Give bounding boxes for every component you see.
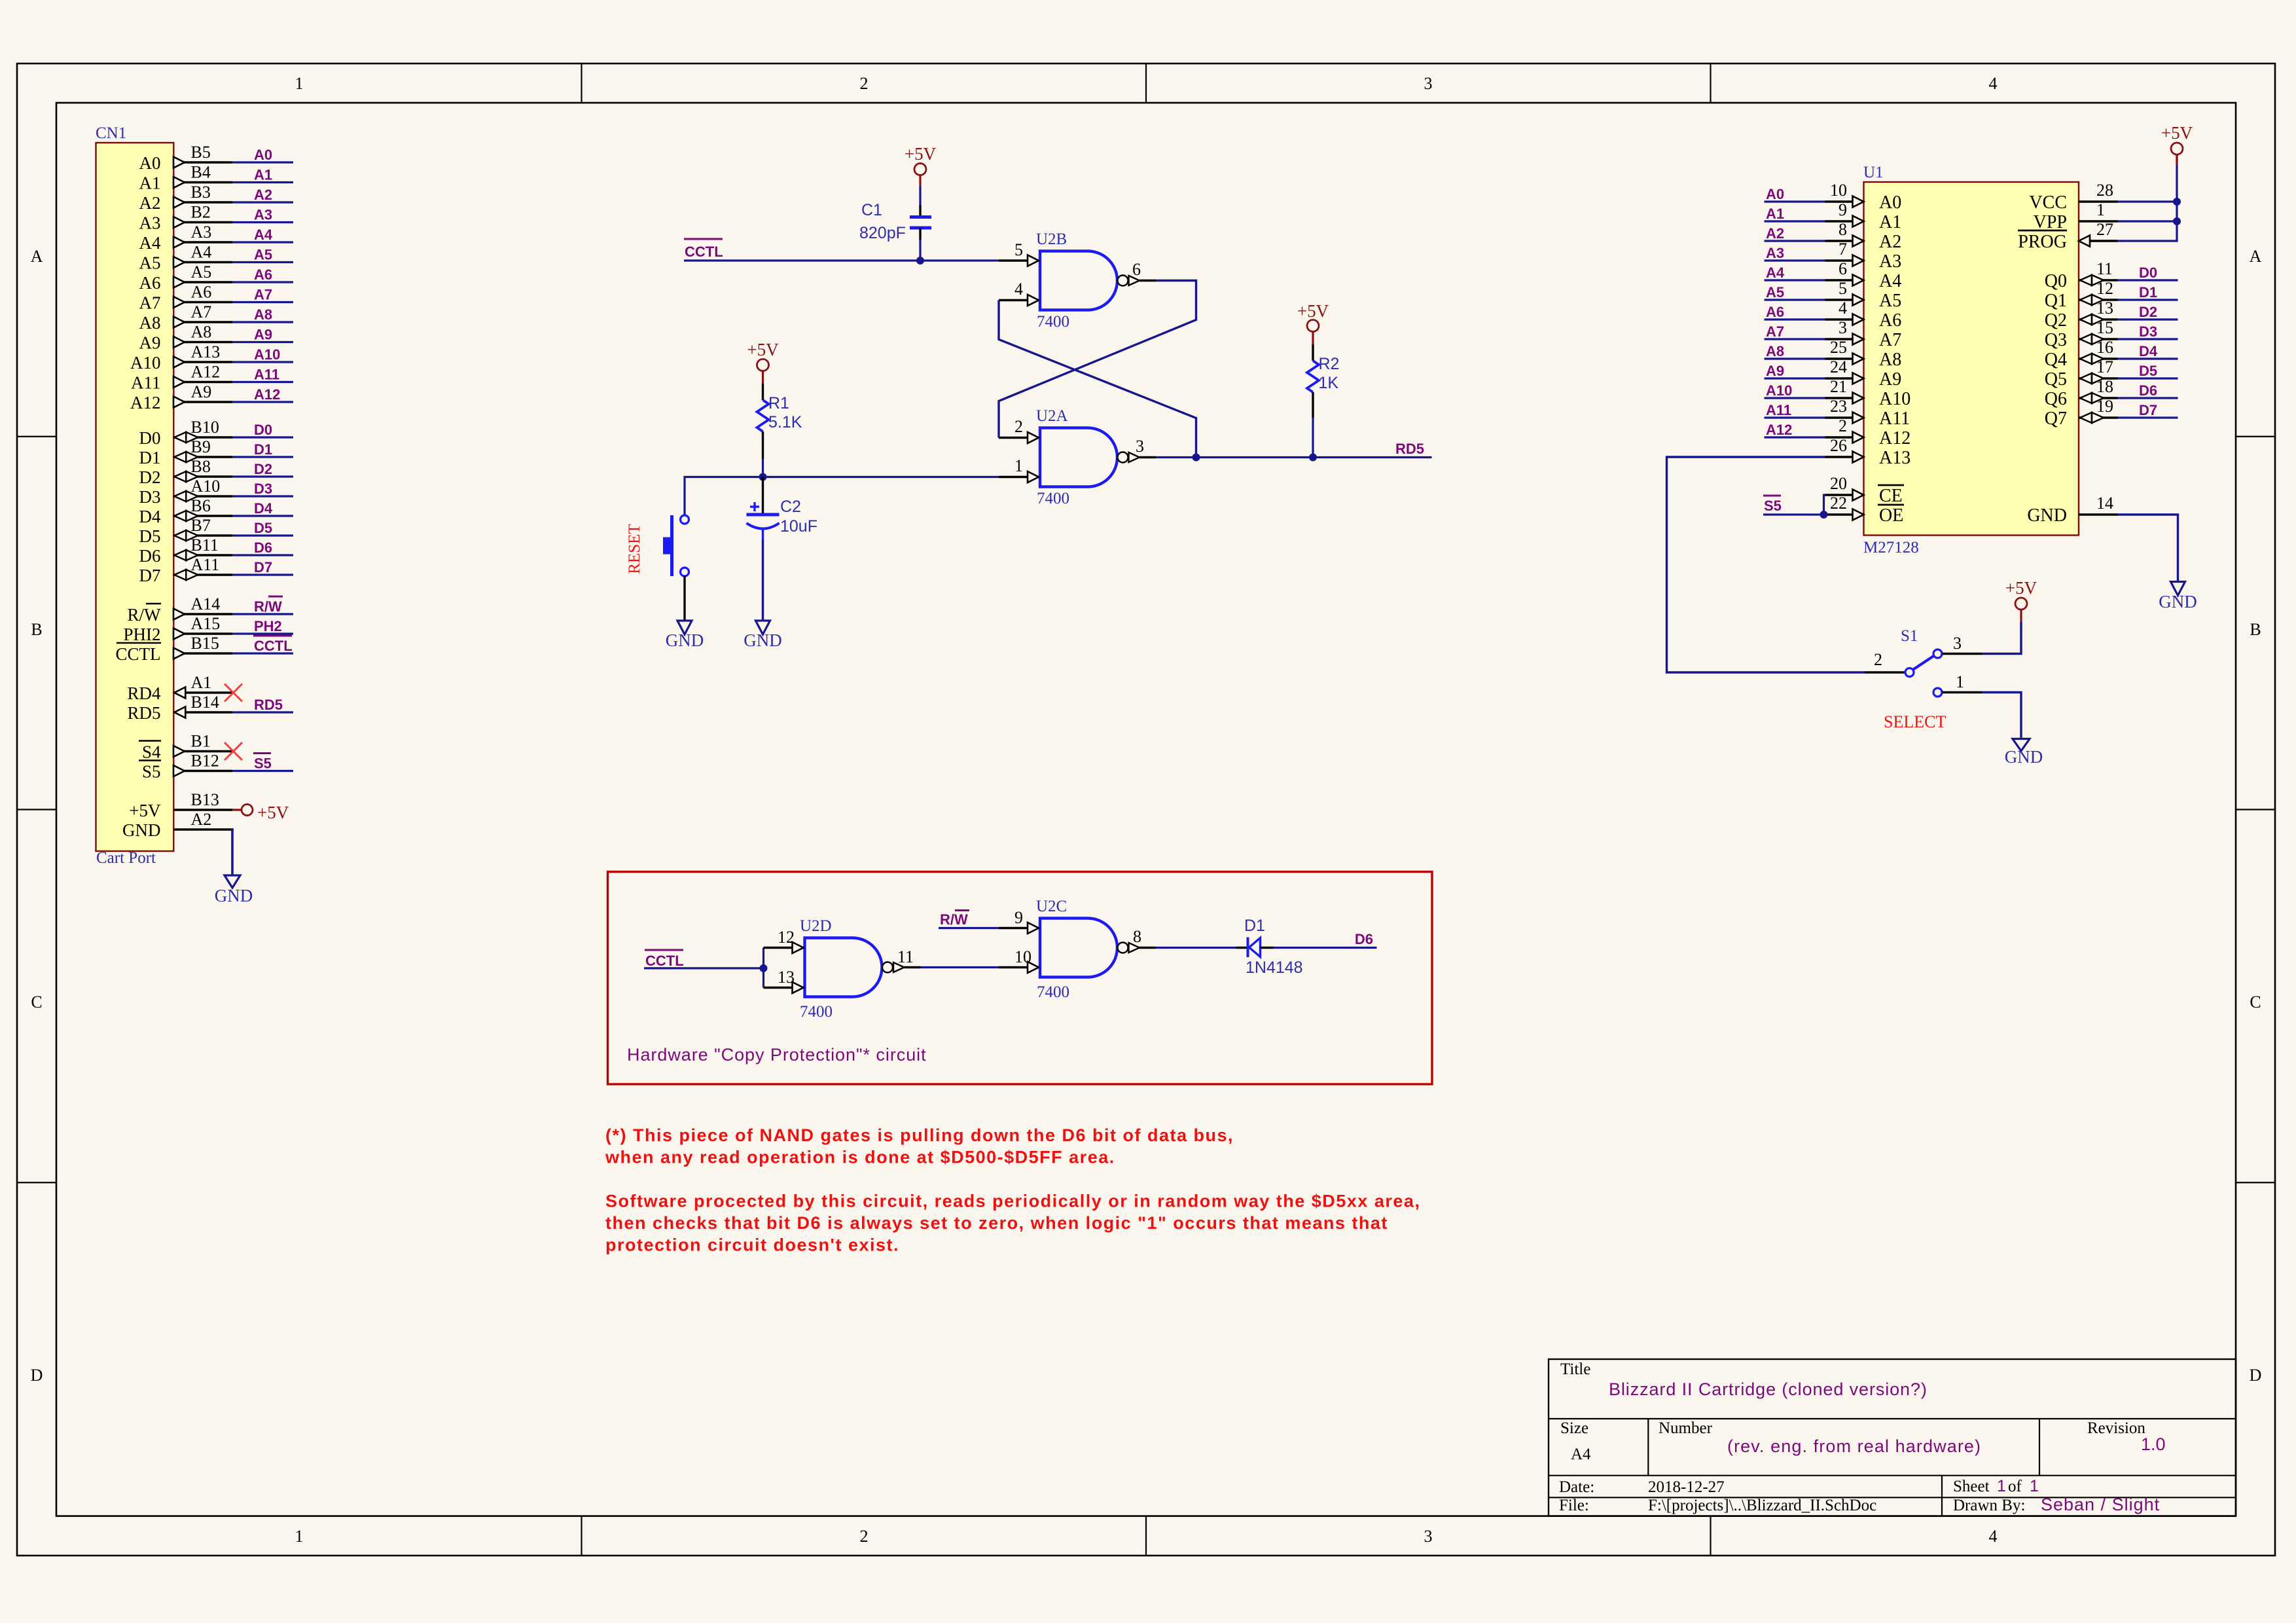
U2C pin 9 (999, 908, 1039, 934)
wire RESET switch to ground (683, 576, 685, 621)
net label D6 (1355, 931, 1373, 947)
svg-text:Size: Size (1560, 1419, 1588, 1437)
svg-text:RD4: RD4 (127, 684, 161, 703)
wire + net label A11 (to U1) (1765, 402, 1825, 418)
svg-text:B9: B9 (191, 437, 211, 456)
svg-text:27: 27 (2096, 220, 2113, 239)
svg-text:A14: A14 (191, 594, 221, 613)
svg-text:9: 9 (1014, 908, 1023, 927)
net label CCTL (latch input) (684, 239, 723, 260)
U2D pin 11 label (897, 947, 914, 966)
CN1 pin D1 (pad B9) (139, 437, 233, 467)
svg-text:13: 13 (2096, 299, 2113, 318)
svg-text:VPP: VPP (2034, 212, 2067, 232)
CN1 pin D7 (pad A11) (139, 555, 233, 585)
wire RC node row to U2A pin 1 (685, 477, 999, 516)
wire S1 pin1 to ground (1982, 693, 2022, 740)
wire RD5 output (1156, 456, 1432, 458)
svg-text:CCTL: CCTL (115, 644, 160, 664)
svg-text:7400: 7400 (1037, 983, 1069, 1001)
svg-text:D: D (31, 1366, 43, 1385)
wire + net label A4 (to U1) (1765, 264, 1825, 281)
svg-text:D5: D5 (254, 520, 272, 536)
svg-text:R/W: R/W (940, 911, 968, 928)
svg-text:A9: A9 (1879, 369, 1901, 390)
net label RD5 (1395, 441, 1424, 457)
svg-text:CCTL: CCTL (685, 244, 723, 260)
wire + net label D0 (from U1) (2118, 264, 2178, 281)
U1 pin Q6 (18) (2045, 377, 2118, 409)
svg-text:+5V: +5V (905, 144, 937, 164)
S1 pin number 2 (1874, 650, 1882, 669)
U2B pin 6 label (1132, 260, 1141, 279)
svg-text:U1: U1 (1863, 164, 1884, 181)
CN1 pin D6 (pad B11) (139, 536, 233, 566)
svg-text:D7: D7 (139, 566, 161, 585)
wire + net label A2 (232, 187, 293, 203)
svg-text:C: C (31, 993, 42, 1012)
U1 pin Q2 (13) (2045, 299, 2118, 331)
svg-text:U2A: U2A (1036, 407, 1068, 425)
svg-text:A0: A0 (254, 147, 272, 163)
svg-text:12: 12 (2096, 279, 2113, 298)
wire to ground (CN1) (231, 828, 234, 875)
NAND gate U2B (7400) (1036, 230, 1156, 331)
resistor R1 5.1K (757, 384, 802, 459)
no-ERC cross S4 (224, 742, 242, 760)
svg-text:of: of (2008, 1478, 2022, 1495)
junction VCC node (2173, 198, 2181, 206)
wire D1 to D6 (1261, 947, 1377, 949)
CN1 pin A8 (pad A7) (139, 302, 233, 333)
U1 pin Q4 (16) (2045, 338, 2118, 370)
U1 pin A1 (9) (1825, 200, 1902, 232)
svg-text:Drawn By:: Drawn By: (1953, 1497, 2025, 1514)
wire + net label D0 (232, 422, 293, 438)
U1 pin Q7 (19) (2045, 397, 2118, 429)
svg-text:23: 23 (1830, 397, 1847, 416)
svg-text:GND: GND (744, 630, 782, 650)
U1 pin Q1 (12) (2045, 279, 2118, 311)
svg-text:Sheet: Sheet (1953, 1478, 1990, 1495)
svg-text:7: 7 (1839, 240, 1847, 259)
wire + net label A0 (232, 147, 293, 163)
wire + net label A0 (to U1) (1765, 186, 1825, 202)
svg-text:then checks that bit D6 is alw: then checks that bit D6 is always set to… (605, 1213, 1388, 1233)
CN1 pin RD4 (pad A1, not connected) (127, 673, 232, 703)
svg-text:A12: A12 (1766, 422, 1792, 438)
svg-text:PH2: PH2 (254, 618, 282, 634)
CN1 pin A6 (pad A5) (139, 263, 233, 293)
svg-text:17: 17 (2096, 357, 2113, 376)
svg-text:A12: A12 (130, 393, 161, 412)
svg-text:CE: CE (1879, 486, 1903, 506)
CN1 pin RD5 (pad B14) (127, 693, 232, 723)
svg-text:A7: A7 (1879, 330, 1901, 350)
svg-text:GND: GND (2005, 747, 2043, 767)
svg-text:1: 1 (295, 1527, 304, 1546)
svg-text:1K: 1K (1319, 374, 1339, 392)
svg-text:Revision: Revision (2087, 1419, 2145, 1437)
svg-text:5.1K: 5.1K (768, 413, 802, 431)
svg-text:R2: R2 (1319, 355, 1340, 373)
svg-text:A9: A9 (254, 327, 272, 343)
svg-text:A1: A1 (1766, 206, 1784, 222)
svg-text:B7: B7 (191, 516, 211, 535)
svg-text:S5: S5 (1764, 498, 1782, 514)
svg-text:A7: A7 (254, 287, 272, 303)
U2A pin 2 (999, 417, 1039, 443)
svg-text:A5: A5 (1879, 291, 1901, 311)
svg-text:D3: D3 (139, 487, 161, 507)
svg-text:A3: A3 (254, 207, 272, 223)
svg-text:10: 10 (1830, 181, 1847, 200)
svg-text:9: 9 (1839, 200, 1847, 219)
svg-text:A11: A11 (1879, 409, 1910, 429)
wire + net label D4 (from U1) (2118, 343, 2178, 359)
svg-text:A15: A15 (191, 614, 221, 633)
wire + net label S5 (232, 754, 293, 772)
CN1 pin A7 (pad A6) (139, 283, 233, 313)
svg-text:18: 18 (2096, 377, 2113, 396)
S1 pin number 1 (1956, 672, 1964, 691)
junction VPP node (2173, 217, 2181, 225)
svg-text:CCTL: CCTL (645, 953, 684, 969)
svg-text:(*) This piece of NAND gates i: (*) This piece of NAND gates is pulling … (605, 1125, 1234, 1145)
diode D1 1N4148 (1244, 917, 1303, 977)
CN1 pin A5 (pad A4) (139, 243, 233, 273)
svg-text:Title: Title (1560, 1360, 1590, 1378)
svg-text:A3: A3 (191, 223, 212, 242)
svg-text:Date:: Date: (1559, 1478, 1594, 1496)
svg-text:820pF: 820pF (859, 224, 906, 242)
svg-text:D5: D5 (139, 526, 161, 546)
wire + net label A6 (to U1) (1765, 304, 1825, 320)
EPROM U1 designator (1863, 164, 1884, 181)
svg-text:5: 5 (1014, 240, 1023, 259)
wire + net label R/W (232, 596, 293, 615)
U2C pin 10 (999, 947, 1039, 973)
svg-text:B8: B8 (191, 457, 211, 476)
CN1 pin D0 (pad B10) (139, 418, 233, 448)
svg-text:A0: A0 (139, 153, 161, 173)
svg-text:F:\[projects]\..\Blizzard_II.S: F:\[projects]\..\Blizzard_II.SchDoc (1648, 1497, 1876, 1514)
connector CN1 designator (96, 124, 126, 142)
net label S5 (to OE) (1763, 496, 1782, 514)
svg-text:+5V: +5V (129, 801, 161, 820)
svg-text:A6: A6 (254, 266, 272, 283)
svg-text:4: 4 (1839, 299, 1847, 318)
label RESET (626, 524, 643, 574)
svg-text:2018-12-27: 2018-12-27 (1648, 1478, 1725, 1496)
svg-text:A6: A6 (1766, 304, 1784, 320)
wire + net label D6 (from U1) (2118, 382, 2178, 399)
svg-text:3: 3 (1953, 634, 1962, 653)
svg-text:Q4: Q4 (2045, 350, 2067, 370)
junction CCTL split (760, 964, 768, 972)
power port +5V above U1 (2161, 123, 2193, 165)
U1 pin Q3 (15) (2045, 318, 2118, 350)
svg-text:Q2: Q2 (2045, 310, 2067, 331)
svg-text:R/W: R/W (128, 605, 162, 625)
svg-text:A2: A2 (1766, 225, 1784, 242)
wire R2 to RD5 net (1312, 418, 1314, 458)
U1 pin VPP (1) (2034, 200, 2118, 232)
svg-text:2: 2 (1874, 650, 1882, 669)
wire + net label A10 (to U1) (1765, 382, 1825, 399)
svg-text:A3: A3 (139, 213, 161, 233)
power port +5V above C1 (905, 144, 937, 186)
svg-text:Q6: Q6 (2045, 389, 2067, 409)
svg-text:10: 10 (1014, 947, 1031, 966)
wire + net label A3 (232, 207, 293, 223)
svg-text:Cart Port: Cart Port (96, 849, 156, 867)
switch S1 (1865, 649, 1982, 697)
svg-text:A9: A9 (1766, 363, 1784, 379)
svg-text:B5: B5 (191, 143, 211, 162)
NAND gate U2C (7400) (1036, 898, 1156, 1001)
svg-text:1: 1 (295, 74, 304, 93)
svg-text:B13: B13 (191, 790, 219, 809)
svg-text:A8: A8 (254, 306, 272, 323)
U1 pin A6 (4) (1825, 299, 1902, 331)
U1 pin PROG (27) (2018, 220, 2118, 252)
wire S1 pin3 to +5V (1982, 622, 2022, 654)
svg-text:U2D: U2D (800, 917, 832, 935)
title block frame (1549, 1359, 2236, 1516)
svg-text:A2: A2 (254, 187, 272, 203)
svg-text:4: 4 (1989, 74, 1998, 93)
svg-text:B1: B1 (191, 732, 211, 751)
svg-text:A4: A4 (254, 227, 273, 243)
svg-text:A7: A7 (191, 302, 212, 321)
svg-text:GND: GND (215, 886, 253, 905)
U1 pin Q5 (17) (2045, 357, 2118, 390)
svg-text:2: 2 (860, 1527, 869, 1546)
svg-text:B12: B12 (191, 752, 219, 771)
U1 pin VCC (28) (2029, 181, 2117, 213)
svg-text:D2: D2 (254, 461, 272, 477)
svg-text:Seban / Slight: Seban / Slight (2041, 1495, 2160, 1514)
svg-text:A10: A10 (1879, 389, 1910, 409)
wire + net label A7 (232, 287, 293, 303)
CN1 pin A12 (pad A9) (130, 382, 232, 412)
label C1 820pF (859, 201, 906, 242)
CN1 pin S5 (pad B12) (139, 752, 232, 782)
svg-text:7400: 7400 (1037, 313, 1069, 331)
svg-text:A12: A12 (1879, 428, 1910, 448)
wire + net label D1 (from U1) (2118, 284, 2178, 301)
svg-text:SELECT: SELECT (1884, 712, 1946, 731)
svg-text:1N4148: 1N4148 (1246, 958, 1303, 977)
svg-text:A6: A6 (191, 283, 212, 302)
svg-text:11: 11 (897, 947, 914, 966)
svg-text:Blizzard II Cartridge (cloned: Blizzard II Cartridge (cloned version?) (1609, 1379, 1928, 1399)
svg-text:C: C (2250, 993, 2261, 1012)
svg-text:S5: S5 (254, 756, 272, 772)
svg-text:R/W: R/W (254, 598, 282, 615)
label SELECT (1884, 712, 1946, 731)
svg-text:D6: D6 (254, 539, 272, 556)
svg-text:B15: B15 (191, 634, 219, 653)
U2B pin 4 (999, 280, 1039, 306)
svg-text:D1: D1 (1244, 917, 1265, 935)
wire +5V to C1 (919, 186, 921, 215)
svg-text:6: 6 (1839, 259, 1847, 278)
svg-text:A10: A10 (191, 477, 221, 496)
junction CCTL/C1 (916, 257, 924, 264)
svg-text:B4: B4 (191, 163, 211, 182)
CN1 pin +5V (pad B13) with power port (129, 790, 289, 822)
svg-text:14: 14 (2096, 494, 2113, 513)
CN1 pin D3 (pad A10) (139, 477, 233, 507)
svg-text:A5: A5 (254, 247, 272, 263)
svg-text:11: 11 (2096, 259, 2113, 278)
svg-text:GND: GND (122, 820, 161, 840)
svg-text:D4: D4 (254, 500, 273, 517)
U2A pin 1 (999, 456, 1039, 483)
svg-text:2: 2 (1014, 417, 1023, 436)
U1 pin A12 (2) (1825, 416, 1911, 448)
svg-text:RD5: RD5 (254, 697, 283, 713)
svg-text:D6: D6 (1355, 931, 1373, 947)
wire + net label D4 (232, 500, 293, 517)
wire U2A output to U2B input 4 (999, 301, 1196, 458)
svg-text:PHI2: PHI2 (123, 625, 160, 644)
power port +5V above R1 (747, 340, 779, 384)
wire A13 to switch S1 common (1667, 457, 1865, 672)
EPROM U1 body (1864, 182, 2079, 536)
svg-text:A5: A5 (191, 263, 212, 282)
ground symbol below RESET (666, 621, 704, 650)
net label R/W (copy protection) (940, 911, 969, 928)
svg-text:GND: GND (2159, 592, 2197, 611)
red annotation text block (605, 1125, 1420, 1255)
U1 pin A11 (23) (1825, 397, 1910, 429)
svg-text:S4: S4 (142, 742, 161, 762)
svg-text:3: 3 (1424, 74, 1433, 93)
svg-text:+5V: +5V (2161, 123, 2193, 143)
CN1 pin CCTL (pad B15) (115, 634, 232, 664)
svg-text:A10: A10 (254, 346, 280, 363)
U1 pin GND (14) (2027, 494, 2117, 526)
svg-text:A4: A4 (1571, 1446, 1591, 1463)
svg-text:6: 6 (1132, 260, 1141, 279)
svg-text:A3: A3 (1879, 251, 1901, 272)
svg-text:A5: A5 (1766, 284, 1784, 301)
svg-text:B3: B3 (191, 183, 211, 202)
CN1 pin A3 (pad B2) (139, 203, 233, 233)
junction RC node (759, 473, 767, 481)
wire + net label D5 (from U1) (2118, 363, 2178, 379)
svg-text:when any read operation is don: when any read operation is done at $D500… (605, 1148, 1115, 1167)
svg-text:D1: D1 (2139, 284, 2157, 301)
svg-text:+5V: +5V (747, 340, 779, 359)
CN1 pin PHI2 (pad A15) (123, 614, 232, 644)
CN1 pin A10 (pad A13) (130, 342, 232, 373)
title block texts (1559, 1360, 2166, 1514)
wire + net label D7 (232, 559, 293, 575)
svg-text:+5V: +5V (2005, 578, 2037, 598)
svg-text:A5: A5 (139, 253, 161, 273)
CN1 pin D5 (pad B7) (139, 516, 233, 546)
wire S5 to CE/OE (1763, 495, 1825, 515)
wire + net label A5 (to U1) (1765, 284, 1825, 301)
svg-text:A11: A11 (254, 367, 279, 383)
capacitor C1 (910, 217, 931, 228)
wire + net label A8 (232, 306, 293, 323)
svg-text:D4: D4 (139, 507, 161, 526)
svg-text:A2: A2 (1879, 232, 1901, 252)
wire VPP to +5V (2118, 220, 2178, 222)
svg-text:A8: A8 (139, 313, 161, 333)
svg-text:A4: A4 (139, 233, 161, 253)
wire + net label D3 (232, 481, 293, 497)
wire + net label D7 (from U1) (2118, 402, 2178, 418)
NAND gate U2A (7400) (1036, 407, 1156, 507)
svg-text:19: 19 (2096, 397, 2113, 416)
svg-text:A9: A9 (139, 333, 161, 353)
svg-text:CN1: CN1 (96, 124, 126, 142)
svg-text:B: B (2250, 620, 2261, 639)
svg-text:D5: D5 (2139, 363, 2157, 379)
svg-text:8: 8 (1133, 927, 1141, 946)
svg-text:U2B: U2B (1036, 230, 1067, 248)
svg-text:3: 3 (1424, 1527, 1433, 1546)
svg-text:D1: D1 (139, 448, 161, 467)
svg-text:1: 1 (1014, 456, 1023, 475)
svg-text:RESET: RESET (626, 524, 643, 574)
svg-text:D0: D0 (2139, 264, 2157, 281)
svg-text:A12: A12 (254, 386, 280, 403)
svg-text:4: 4 (1014, 280, 1023, 299)
svg-text:M27128: M27128 (1863, 539, 1919, 556)
svg-text:(rev. eng. from real hardware): (rev. eng. from real hardware) (1727, 1436, 1981, 1456)
svg-text:A1: A1 (1879, 212, 1901, 232)
wire + net label D6 (232, 539, 293, 556)
svg-text:A11: A11 (131, 373, 161, 393)
svg-text:B10: B10 (191, 418, 219, 437)
svg-text:24: 24 (1830, 357, 1847, 376)
svg-text:A4: A4 (1879, 271, 1901, 291)
svg-text:Hardware "Copy Protection"* ci: Hardware "Copy Protection"* circuit (627, 1045, 927, 1065)
svg-text:D6: D6 (139, 546, 161, 566)
wire PROG up to VPP node (2118, 155, 2178, 241)
ground symbol below S1 (2005, 739, 2043, 767)
svg-text:8: 8 (1839, 220, 1847, 239)
junction R2/RD5 (1309, 454, 1317, 462)
svg-text:A2: A2 (139, 193, 161, 213)
svg-text:A9: A9 (191, 382, 212, 401)
EPROM U1 comment M27128 (1863, 539, 1919, 556)
ground symbol below U1 (2159, 582, 2197, 612)
wire CCTL to U2B pin 5 (684, 259, 999, 261)
red frame: Hardware Copy Protection circuit (608, 872, 1433, 1085)
svg-text:3: 3 (1839, 318, 1847, 337)
CN1 pin A2 (pad B3) (139, 183, 233, 213)
svg-text:A2: A2 (191, 810, 212, 829)
svg-text:CCTL: CCTL (254, 638, 293, 654)
svg-text:A8: A8 (1879, 350, 1901, 370)
CN1 pin A11 (pad A12) (131, 363, 232, 393)
svg-text:15: 15 (2096, 318, 2113, 337)
CN1 pin A4 (pad A3) (139, 223, 233, 253)
wire + net label A10 (232, 346, 293, 363)
svg-text:GND: GND (666, 630, 704, 650)
junction at U2A output (1193, 454, 1200, 462)
wire + net label A1 (to U1) (1765, 206, 1825, 222)
svg-text:A6: A6 (139, 273, 161, 293)
